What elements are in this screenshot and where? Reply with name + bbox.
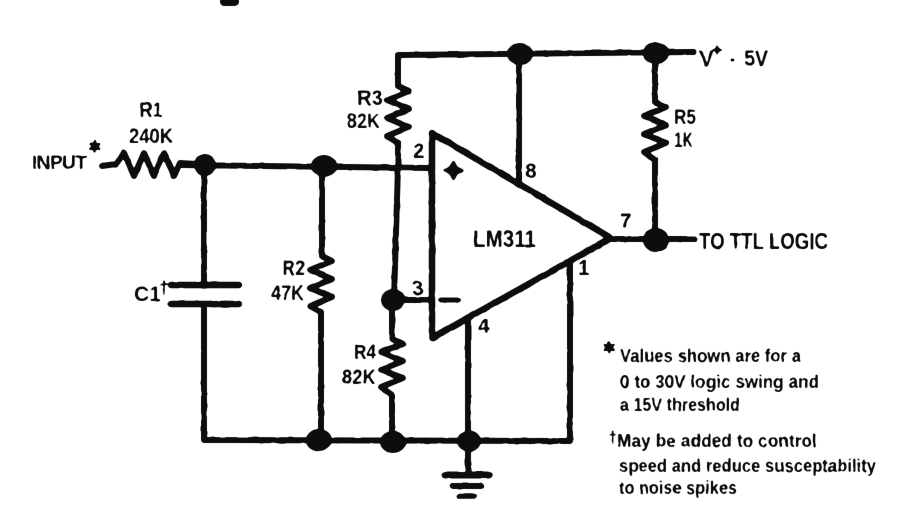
svg-text:C1: C1 [134,283,161,306]
svg-text:R3: R3 [357,87,383,110]
junction: output / R5 node [643,228,669,252]
junction: R1 / C1 node [194,154,216,176]
label TO TTL LOGIC [699,228,828,254]
svg-text:1K: 1K [674,129,693,152]
label R4 82K [342,341,376,389]
label R2 47K [271,257,305,305]
svg-text:1: 1 [578,257,590,280]
svg-text:5V: 5V [744,46,768,71]
svg-text:a 15V threshold: a 15V threshold [620,395,740,415]
label C1† [134,278,169,306]
label − input [441,298,458,303]
svg-text:TO TTL LOGIC: TO TTL LOGIC [699,228,828,254]
junction: node 3 [381,289,405,311]
svg-text:Values shown are for a: Values shown are for a [620,346,802,366]
resistor R5 [644,57,666,238]
svg-text:R2: R2 [282,257,305,280]
pin 7 label [620,210,632,233]
svg-text:R4: R4 [354,341,376,364]
svg-text:4: 4 [478,315,490,338]
wire: R3/R4 divider crossover to node 3 [394,166,398,299]
resistor R1 [102,153,197,176]
pin 4 wire [465,320,471,440]
svg-text:R1: R1 [140,99,163,122]
wire: node 3 to pin 3 [393,297,431,303]
ground [445,443,489,496]
label R3 82K [347,87,383,133]
pin 8 wire [516,56,522,184]
svg-text:8: 8 [525,160,537,183]
label LM311 [473,226,536,253]
note: values footnote [605,342,820,415]
resistor R2 [310,172,332,438]
svg-text:47K: 47K [271,282,304,305]
pin 2 label [413,140,425,163]
label R5 1K [674,106,696,152]
wire: ground bottom rail [204,309,570,441]
stray crop mark [220,0,239,6]
junction: R2 / ground rail [306,429,332,451]
pin 8 label [525,160,537,183]
note: C1 footnote [608,428,876,498]
wire: V+ top rail [398,52,694,55]
node label INPUT* [32,141,100,174]
svg-text:7: 7 [620,210,632,233]
svg-text:0 to 30V logic swing and: 0 to 30V logic swing and [620,372,819,392]
svg-text:†: † [159,278,169,298]
svg-text:82K: 82K [347,110,380,133]
junction: R2 tap node [311,155,337,177]
svg-text:INPUT: INPUT [32,153,87,174]
resistor R3 [387,56,409,165]
resistor R4 [381,305,403,439]
svg-text:speed and reduce susceptabilit: speed and reduce susceptability [619,456,876,476]
pin 1 label [578,257,590,280]
svg-text:R5: R5 [674,106,696,129]
svg-text:2: 2 [413,140,425,163]
svg-text:82K: 82K [342,366,376,389]
junction: R5 / V+ rail [643,42,669,64]
label R1 240K [129,99,173,148]
svg-text:LM311: LM311 [473,226,536,253]
svg-text:3: 3 [412,277,424,300]
op-amp U1 LM311 [432,133,611,338]
capacitor C1 [171,170,239,304]
pin 7 output wire [611,236,694,242]
label + input [445,162,463,179]
svg-text:V: V [699,46,714,71]
pin 4 label [478,315,490,338]
svg-text:May be added to control: May be added to control [617,431,817,451]
junction: pin8 / V+ rail [507,43,533,65]
svg-text:240K: 240K [129,125,173,148]
wire: pin2 input rail [180,165,431,168]
svg-text:to noise spikes: to noise spikes [619,478,737,498]
pin 1 wire [567,261,573,439]
junction: R4 / ground rail [380,431,406,453]
pin 3 label [412,277,424,300]
net label V+ 5V [699,45,768,72]
junction: pin4 / ground rail [457,431,481,452]
